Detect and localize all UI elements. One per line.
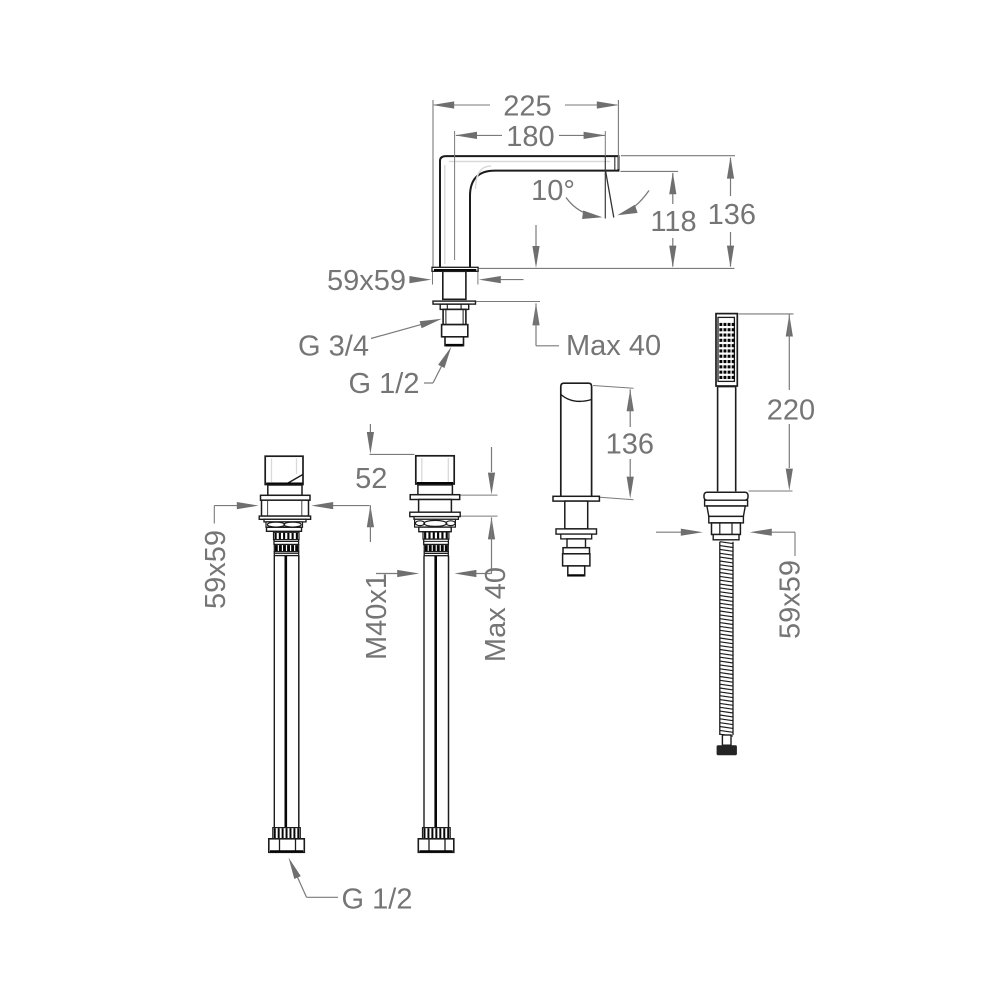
dim 59x59 spout right tail bbox=[500, 279, 524, 281]
diverter tip dark end bbox=[568, 574, 584, 576]
right hose end nut G1/2 bbox=[418, 839, 454, 853]
svg-text:59x59: 59x59 bbox=[200, 530, 232, 609]
diverter neck bbox=[567, 539, 586, 548]
arrowhead 136 top bbox=[727, 157, 734, 179]
left valve handle notch bbox=[287, 475, 303, 484]
m40x1 horizontal tail bbox=[376, 573, 398, 575]
dim 52 reference line bbox=[370, 453, 415, 455]
right valve escutcheon step bbox=[414, 517, 458, 520]
svg-text:59x59: 59x59 bbox=[775, 560, 807, 639]
spout tip dark end bbox=[446, 344, 463, 347]
svg-text:Max 40: Max 40 bbox=[480, 567, 512, 662]
arrowhead 59x59 spout right bbox=[479, 276, 501, 283]
arrowhead 59x59 shower right-pointing bbox=[681, 529, 703, 536]
max40 spout vertical top bbox=[535, 225, 537, 246]
arrowhead G 1/2 spout bbox=[438, 347, 451, 368]
max40 spout leader elbow bbox=[536, 345, 559, 347]
svg-text:G 1/2: G 1/2 bbox=[342, 884, 413, 916]
arrowhead 136 mid down bbox=[627, 477, 634, 499]
dim 52 stem bottom bbox=[369, 505, 371, 542]
hand shower hose dark tip bbox=[717, 745, 737, 755]
left valve handle bbox=[265, 456, 303, 484]
left valve step line bbox=[269, 531, 299, 532]
diverter escutcheon bbox=[556, 529, 597, 534]
dim line 180 bbox=[456, 134, 502, 136]
svg-text:G 3/4: G 3/4 bbox=[298, 331, 369, 363]
left valve splined section 2 bbox=[274, 545, 298, 552]
spout locknut bbox=[440, 304, 469, 309]
hand shower hose nut bbox=[712, 523, 741, 535]
right valve band 3 bbox=[424, 552, 448, 556]
leader G 1/2 bottom bbox=[307, 896, 339, 898]
bath spout outline (top assembly) bbox=[440, 156, 619, 267]
dim line 118 bbox=[672, 173, 674, 204]
arrowhead G 1/2 bottom bbox=[289, 858, 301, 880]
arrowhead 180 left bbox=[455, 132, 477, 139]
max40 spout vertical bottom bbox=[535, 303, 537, 345]
dim 136 extension line bbox=[621, 155, 735, 157]
left valve base body bbox=[262, 500, 309, 516]
svg-text:180: 180 bbox=[506, 121, 554, 153]
hand shower nut collar bbox=[713, 535, 739, 540]
right valve scalloped ring bbox=[415, 519, 456, 527]
right valve splined section bbox=[423, 532, 449, 539]
svg-text:225: 225 bbox=[503, 90, 551, 122]
arrowhead 220 up bbox=[786, 315, 793, 337]
svg-text:10°: 10° bbox=[531, 175, 575, 207]
right valve body bbox=[419, 500, 452, 513]
right valve band bbox=[419, 527, 451, 532]
max40 right vertical stem top bbox=[491, 447, 493, 472]
left hose end ribbed collar bbox=[273, 828, 301, 839]
svg-text:220: 220 bbox=[767, 395, 815, 427]
hand shower flexible hose (corrugated) bbox=[720, 542, 733, 735]
left valve handle dark base bbox=[266, 483, 302, 485]
spout G1/2 tip bbox=[445, 337, 464, 346]
left valve scalloped ring bbox=[266, 522, 303, 527]
arrowhead 59x59 left valve left-pointing bbox=[311, 502, 333, 509]
diverter tail block bbox=[563, 554, 590, 566]
dim 59x59 left valve right tail bbox=[333, 505, 370, 507]
right valve flange bbox=[410, 495, 460, 500]
right valve band 2 bbox=[424, 539, 449, 544]
max40 right horizontal tail bbox=[476, 573, 492, 575]
left hose nut dark end bbox=[270, 850, 303, 852]
svg-text:M40x1: M40x1 bbox=[361, 573, 393, 660]
hand shower hose end tube bbox=[722, 735, 731, 745]
right valve cartridge cap bbox=[416, 456, 454, 484]
svg-text:G 1/2: G 1/2 bbox=[349, 368, 420, 400]
hand shower head body bbox=[716, 314, 737, 386]
left valve supply hose bbox=[273, 556, 275, 828]
arrowhead 180 right bbox=[584, 132, 606, 139]
right valve splined section 2 bbox=[424, 545, 448, 552]
left hose end nut G1/2 bbox=[269, 839, 305, 853]
hand shower escutcheon plate bbox=[704, 492, 748, 500]
hand shower escutcheon step bbox=[705, 500, 748, 506]
spout base flange 59x59 bbox=[432, 267, 478, 271]
arrowhead 136 bottom bbox=[727, 246, 734, 268]
dim 118 extension line bbox=[621, 170, 679, 172]
diverter escutcheon step bbox=[561, 534, 592, 539]
svg-text:59x59: 59x59 bbox=[327, 265, 406, 297]
left valve band bbox=[267, 527, 302, 531]
left valve splined section bbox=[274, 532, 300, 539]
tilted outlet line 10deg bbox=[606, 171, 614, 218]
diverter shank bbox=[565, 501, 588, 529]
arrowhead max40 right up bbox=[488, 517, 495, 539]
spout G3/4 threaded tailpiece bbox=[443, 309, 466, 324]
arrowhead 118 top bbox=[669, 172, 676, 194]
spout shank bottom step bbox=[444, 298, 466, 300]
right valve neck bbox=[418, 485, 453, 495]
dim 59x59 shower left tail bbox=[656, 531, 681, 533]
right hose end ribbed collar bbox=[423, 828, 451, 839]
left valve escutcheon step bbox=[264, 519, 306, 522]
deck reference line (spout base) bbox=[479, 267, 735, 269]
arrowhead 52 down bbox=[367, 432, 374, 454]
dim 59x59 shower right tail bbox=[771, 531, 795, 533]
arrowhead 225 left bbox=[432, 101, 454, 108]
arrowhead G 3/4 bbox=[420, 319, 442, 328]
svg-text:118: 118 bbox=[650, 206, 696, 238]
spout shank bbox=[443, 271, 466, 299]
spout inner shading highlight lines bbox=[449, 161, 610, 163]
dim line 220 bbox=[788, 315, 790, 391]
spout escutcheon plate bbox=[433, 301, 476, 304]
dim 225 extension line left bbox=[432, 100, 434, 267]
hand shower band bbox=[709, 516, 744, 523]
dim 180 extension line left bbox=[454, 131, 456, 260]
dim 59x59 left valve tail bbox=[214, 505, 237, 507]
dim 59x59 shower elbow bbox=[794, 532, 796, 556]
arrowhead 136 mid up bbox=[627, 389, 634, 411]
right valve escutcheon bbox=[410, 512, 460, 516]
left valve neck bbox=[268, 485, 302, 495]
diverter column tube bbox=[561, 383, 592, 496]
right flange extension line bbox=[461, 494, 498, 496]
hand shower taper bbox=[707, 506, 745, 516]
max40 right stem bottom bbox=[491, 517, 493, 573]
left valve handle shading bbox=[271, 459, 273, 483]
spout tail block bbox=[442, 325, 468, 337]
svg-text:52: 52 bbox=[355, 463, 387, 495]
arrowhead max40 right down bbox=[488, 473, 495, 495]
arrowhead 225 right bbox=[597, 101, 619, 108]
spout end cap line bbox=[614, 157, 616, 170]
right escutcheon extension line bbox=[461, 515, 498, 517]
arrowhead 52 up bbox=[367, 505, 374, 527]
right hose nut dark end bbox=[420, 850, 453, 852]
diverter nut band bbox=[563, 548, 590, 554]
dim line 136 bbox=[730, 158, 732, 196]
arrowhead max40 spout up bbox=[532, 303, 539, 325]
dim line 225 bbox=[434, 104, 490, 106]
right valve cap dark base bbox=[417, 482, 453, 484]
dim line 136 mid bbox=[629, 389, 631, 427]
arrowhead 59x59 left valve right-pointing bbox=[237, 502, 259, 509]
arrowhead m40x1 right-pointing bbox=[397, 570, 419, 577]
dim 136 mid top extension bbox=[593, 386, 634, 389]
hand shower spray face grid bbox=[718, 317, 734, 381]
angle arc right with arrowhead bbox=[622, 191, 650, 215]
diverter tip bbox=[568, 566, 585, 576]
right valve supply hose bbox=[423, 556, 425, 828]
dim 136 mid bottom extension bbox=[600, 497, 634, 500]
angle reference vertical line bbox=[604, 131, 606, 156]
svg-text:136: 136 bbox=[606, 429, 654, 461]
dim 220 top extension bbox=[739, 313, 794, 315]
spout escutcheon extension line bbox=[476, 301, 540, 303]
arrowhead 118 bottom bbox=[669, 246, 676, 268]
svg-text:Max 40: Max 40 bbox=[566, 330, 661, 362]
dim 59x59 left valve elbow bbox=[213, 506, 215, 524]
hand shower handle bbox=[717, 387, 719, 491]
leader G 1/2 spout bbox=[424, 382, 433, 384]
59x59 spout extension stubs bbox=[432, 272, 434, 285]
dim 220 bottom extension bbox=[749, 490, 793, 492]
left valve band 3 bbox=[274, 552, 298, 556]
left valve escutcheon bbox=[259, 516, 310, 519]
diverter column top arc bbox=[561, 395, 592, 402]
arrowhead max40 spout down bbox=[532, 246, 539, 268]
arrowhead max40 right left-pointing bbox=[454, 570, 476, 577]
diverter flange bbox=[553, 496, 599, 501]
arrowhead 220 down bbox=[786, 469, 793, 491]
angle arc left with arrowhead bbox=[566, 198, 598, 217]
left valve band 2 bbox=[274, 540, 299, 545]
svg-text:136: 136 bbox=[708, 199, 756, 231]
arrowhead 59x59 spout left bbox=[409, 276, 431, 283]
dim 52 stem top bbox=[369, 424, 371, 432]
arrowhead 59x59 shower left-pointing bbox=[750, 529, 772, 536]
spout flange dark underside bbox=[434, 269, 476, 271]
left valve base ring bbox=[261, 495, 311, 500]
right valve cap shading bbox=[421, 458, 423, 482]
dim 225 extension line right bbox=[617, 100, 619, 169]
leader G 3/4 bbox=[371, 320, 438, 339]
